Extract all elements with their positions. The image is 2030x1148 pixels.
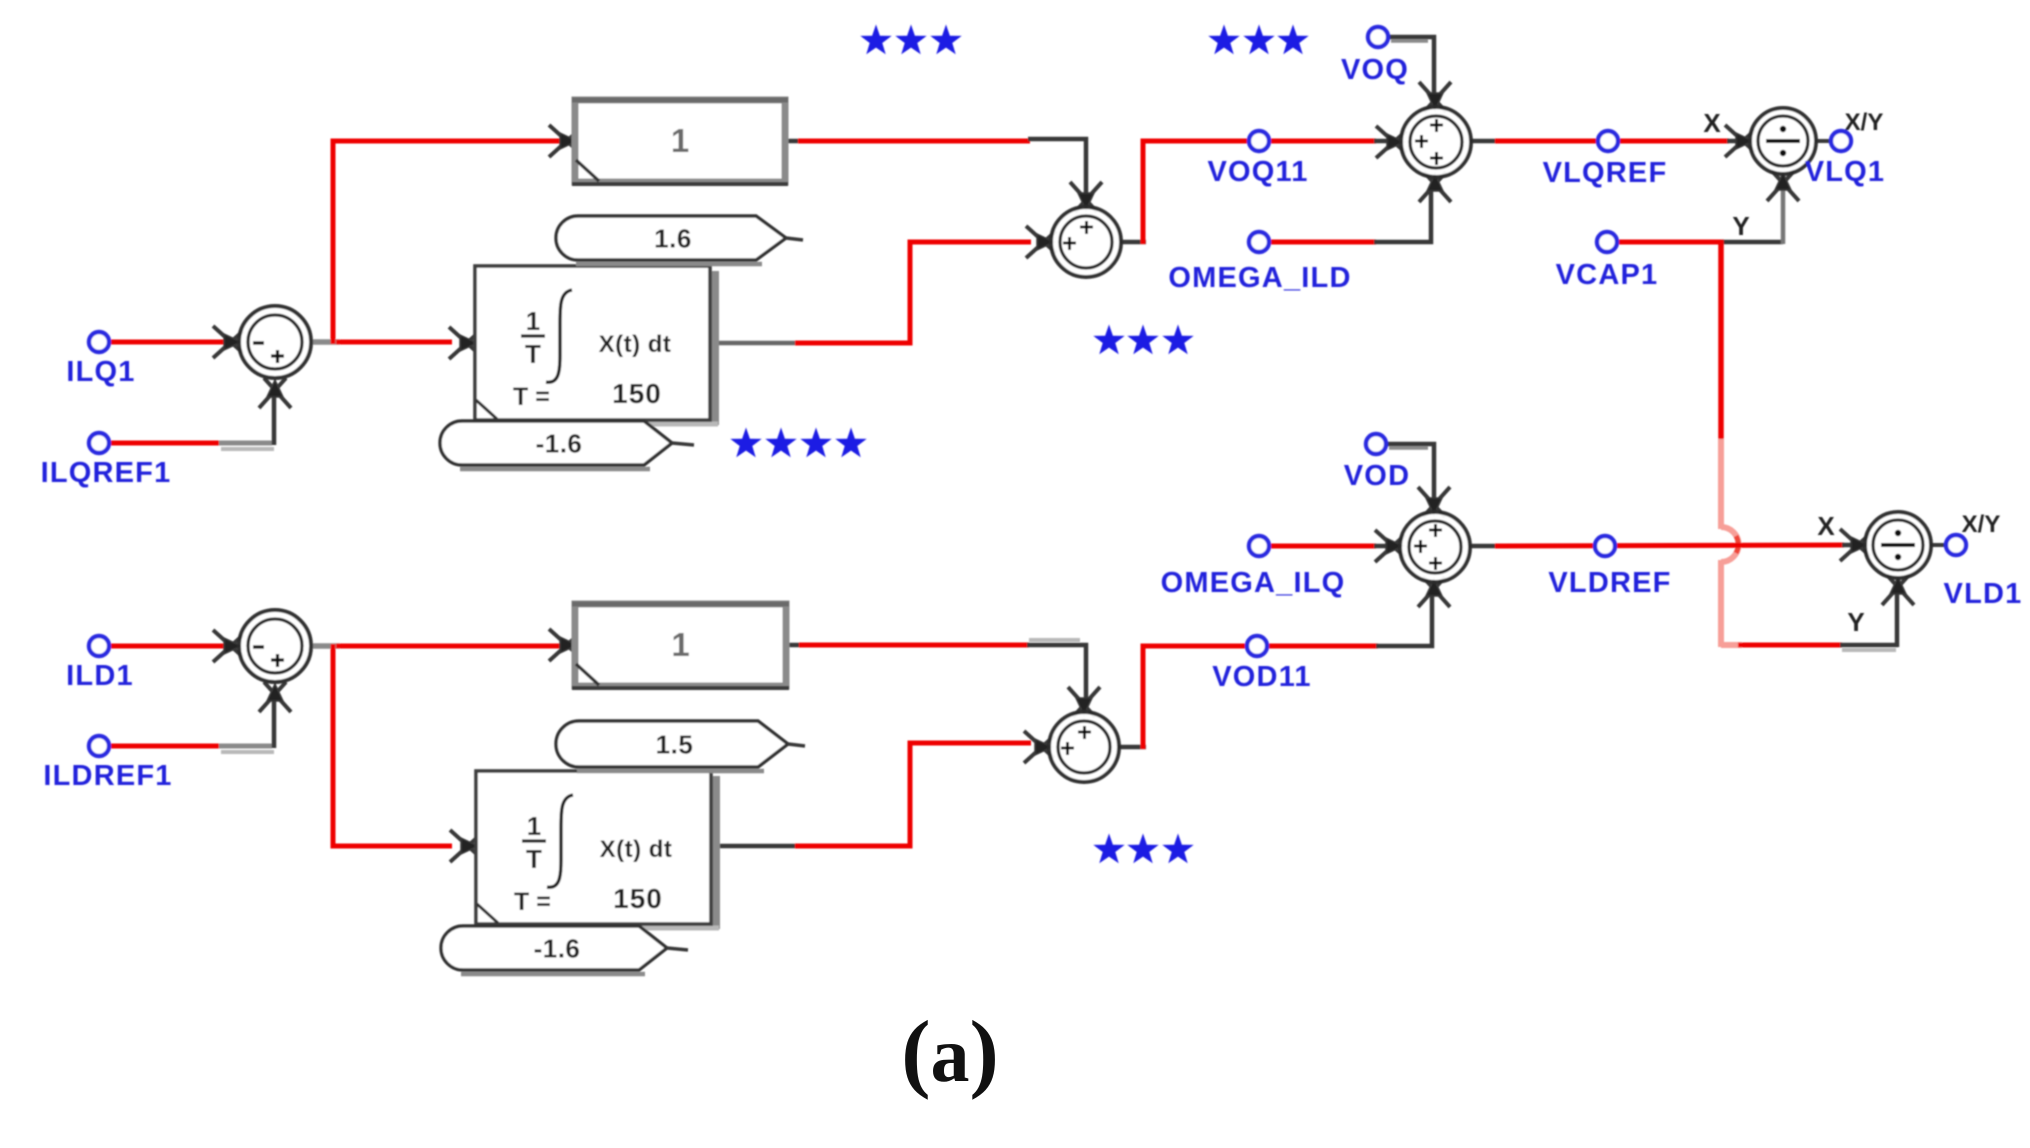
node VOD11 <box>1212 636 1312 693</box>
wire D2 Y input riser <box>1895 582 1900 647</box>
divider D2 (VLDREF / VCAP1 = VLD1) <box>1840 512 1931 605</box>
star marks group 1 <box>860 25 961 55</box>
svg-text:VOQ11: VOQ11 <box>1207 156 1308 188</box>
svg-text:X: X <box>1817 511 1835 541</box>
svg-text:(a): (a) <box>901 1004 999 1101</box>
wire Y row red segment to divider D2 <box>1738 643 1842 648</box>
wire VLQREF row dark segment <box>1727 139 1752 144</box>
svg-text:ILD1: ILD1 <box>66 660 134 692</box>
wire S1 output gray stub <box>311 339 340 345</box>
wire S1 output to integrator INT1 <box>336 340 452 345</box>
wire M1 output stub <box>1470 139 1498 144</box>
svg-text:OMEGA_ILQ: OMEGA_ILQ <box>1161 567 1346 599</box>
star marks group 5 <box>1093 834 1193 864</box>
svg-text:VLQ1: VLQ1 <box>1805 156 1886 188</box>
wire M1 output to divider D1 X input <box>1495 139 1729 144</box>
svg-text:ILQ1: ILQ1 <box>66 356 135 388</box>
svg-text:ILQREF1: ILQREF1 <box>41 457 172 489</box>
wire VCAP1 to D1 Y input dark segment <box>1721 240 1783 245</box>
terminal VOD <box>1344 434 1410 492</box>
summing junction S2 (ILDREF1 - ILD1) <box>213 610 311 712</box>
integrator block INT2 (1/T X(t) dt, T=150) <box>450 771 720 929</box>
terminal ILQ1 <box>66 332 135 388</box>
wire gain G1 output stub <box>786 139 800 144</box>
wire S2 output gray stub <box>311 643 340 649</box>
svg-text:-1.6: -1.6 <box>534 934 581 964</box>
svg-text:X(t) dt: X(t) dt <box>599 331 672 358</box>
wire A1 output riser to VOQ11 row <box>1143 141 1376 244</box>
wire VOQ terminal to M1 top <box>1389 37 1434 100</box>
svg-text:1: 1 <box>671 626 689 663</box>
svg-text:1.6: 1.6 <box>654 224 692 254</box>
wire ILQREF1 gray segment <box>219 441 272 446</box>
wire D1 Y input riser <box>1781 178 1786 244</box>
wire ILDREF1 gray segment <box>219 744 272 749</box>
wire VCAP1 run <box>1616 240 1724 245</box>
svg-text:1: 1 <box>526 306 540 336</box>
wire pink corner to Y row <box>1721 642 1742 648</box>
svg-text:X: X <box>1703 108 1721 138</box>
wire ILDREF1 riser to S2 plus input <box>272 693 277 748</box>
svg-text:Y: Y <box>1732 211 1749 241</box>
terminal ILD1 <box>66 636 134 692</box>
wire A2 output riser to VOD11 row <box>1143 646 1378 749</box>
limit label -1.6 (INT2 lower limit) <box>441 926 688 974</box>
wire INT2 output dark segment <box>716 844 797 849</box>
wire OMEGA_ILQ dark segment <box>1374 544 1392 549</box>
wire G2 output run <box>799 643 1029 648</box>
adder A1 (G1 + INT1) <box>1026 182 1121 277</box>
node OMEGA_ILQ <box>1161 536 1346 599</box>
wire pink riser lower part <box>1718 560 1724 647</box>
svg-text:-1.6: -1.6 <box>536 429 583 459</box>
wire VOD terminal to M2 top <box>1387 444 1434 506</box>
limit label 1.6 (INT1 upper limit) <box>556 216 803 264</box>
node VOQ11 <box>1207 131 1308 188</box>
svg-text:T: T <box>525 339 541 369</box>
wire M2 output to divider D2 X input <box>1495 545 1844 546</box>
svg-text:Y: Y <box>1847 607 1864 637</box>
star marks group 3 <box>1093 325 1193 355</box>
terminal ILQREF1 <box>41 433 172 489</box>
svg-text:150: 150 <box>612 378 662 409</box>
summing junction S1 (ILQREF1 - ILQ1) <box>213 306 311 408</box>
divider D1 (VLQREF / VCAP1 = VLQ1) <box>1725 108 1816 201</box>
wire ILQ1 to summer S1 <box>108 340 230 345</box>
wire corner into adder A1 top <box>1028 139 1086 204</box>
node VLQREF <box>1543 131 1668 189</box>
multiplier M2 (VOD, OMEGA_ILQ, VOD11) <box>1375 487 1470 607</box>
wire INT1 output to adder A1 left <box>795 242 1031 343</box>
star marks group 4 <box>730 428 866 458</box>
svg-text:X/Y: X/Y <box>1962 511 2001 538</box>
multiplier M1 (VOQ, VOQ11, OMEGA_ILD) <box>1376 82 1471 202</box>
limit label 1.5 (INT2 upper limit) <box>556 721 805 771</box>
wire OMEGA_ILD to M1 bottom <box>1268 240 1376 245</box>
gain block G1 value 1 <box>549 100 788 184</box>
wire ILQREF1 riser to S1 plus input <box>272 390 277 445</box>
wire ILDREF1 run <box>108 744 221 749</box>
svg-text:VLD1: VLD1 <box>1944 578 2023 610</box>
svg-text:OMEGA_ILD: OMEGA_ILD <box>1168 262 1351 294</box>
wire VOQ11 row dark segment to multiplier M1 <box>1374 139 1392 144</box>
gain block G2 value 1 <box>549 604 789 688</box>
wire S1 output riser to gain G1 <box>333 141 560 344</box>
integrator block INT1 (1/T X(t) dt, T=150) <box>449 266 719 425</box>
wire VLDREF row dark segment <box>1842 543 1864 548</box>
svg-text:ILDREF1: ILDREF1 <box>43 760 172 792</box>
wire corner into adder A2 top <box>1027 645 1086 708</box>
svg-text:VLQREF: VLQREF <box>1543 157 1668 189</box>
wire D2 output stub <box>1929 543 1945 547</box>
wire S2 output to gain G2 <box>336 644 560 649</box>
wire ILQREF1 run <box>108 441 221 446</box>
wire OMEGA_ILQ to M2 left <box>1266 544 1376 549</box>
wire Y row dark segment <box>1840 643 1898 648</box>
wire adder A2 output stub <box>1118 745 1146 750</box>
wire VOD11 row dark corner to multiplier M2 bottom <box>1376 591 1432 646</box>
wire adder A1 output stub <box>1120 240 1146 245</box>
wire ILD1 to summer S2 <box>108 644 230 649</box>
terminal ILDREF1 <box>43 736 172 792</box>
svg-text:T: T <box>526 844 542 874</box>
svg-text:VOD: VOD <box>1344 460 1410 492</box>
wire hop-over arc at VLDREF crossing <box>1721 527 1738 562</box>
svg-text:X/Y: X/Y <box>1845 109 1884 136</box>
wire OMEGA_ILD dark corner to M1 bottom <box>1374 186 1431 242</box>
svg-text:1: 1 <box>671 122 689 159</box>
terminal VOQ <box>1341 27 1409 86</box>
svg-text:T =: T = <box>514 888 551 916</box>
terminal VCAP1 <box>1556 232 1659 291</box>
svg-text:VOD11: VOD11 <box>1212 661 1312 693</box>
svg-text:VCAP1: VCAP1 <box>1556 259 1659 291</box>
terminal VLQ1 output <box>1805 131 1886 188</box>
node VLDREF <box>1548 536 1671 599</box>
wire VCAP1 riser down (faded pink) <box>1718 439 1724 529</box>
wire S2 output riser down to integrator INT2 <box>333 644 452 846</box>
wire gain G2 output stub <box>787 643 801 648</box>
wire D1 output stub <box>1815 139 1831 143</box>
svg-text:VOQ: VOQ <box>1341 54 1409 86</box>
svg-text:1.5: 1.5 <box>656 730 694 760</box>
svg-text:1: 1 <box>527 811 541 841</box>
limit label -1.6 (INT1 lower limit) <box>440 421 694 469</box>
wire INT1 output gray segment <box>716 341 797 346</box>
wire VCAP1 riser down (red) <box>1718 240 1724 441</box>
svg-text:X(t) dt: X(t) dt <box>600 836 673 863</box>
wire G1 output run <box>798 139 1030 144</box>
wire INT2 output to adder A2 left <box>795 743 1031 846</box>
svg-text:T =: T = <box>513 383 550 411</box>
terminal VLD1 output <box>1944 535 2023 610</box>
svg-text:VLDREF: VLDREF <box>1548 567 1671 599</box>
node OMEGA_ILD <box>1168 232 1351 294</box>
adder A2 (G2 + INT2) <box>1024 687 1119 782</box>
svg-text:150: 150 <box>613 883 663 914</box>
wire M2 output stub <box>1469 544 1498 549</box>
star marks group 2 <box>1208 25 1308 55</box>
